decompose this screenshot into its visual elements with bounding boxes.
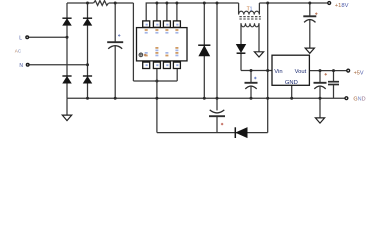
terminal N [26, 64, 29, 67]
capacitor C6 (+5V electrolytic) [314, 83, 327, 89]
diode D6 secondary rectifier [236, 44, 245, 53]
IC U1 pin name labels bottom row [145, 47, 179, 56]
diode D1 bridge top-left [62, 18, 71, 25]
terminal +18V [328, 2, 331, 5]
transformer T1 core dashes [239, 16, 260, 18]
capacitor C5 (+18V filter) [303, 16, 316, 22]
wire IC top bus [146, 3, 238, 21]
svg-text:T1: T1 [247, 7, 253, 13]
IC U1 pin numbers top [146, 24, 179, 26]
svg-text:Vin: Vin [274, 69, 282, 75]
svg-text:L: L [19, 36, 22, 42]
wire cap C2 upper lead [216, 98, 218, 110]
ground arrow +5V cap [315, 118, 324, 123]
capacitor C3 (Vin filter) [245, 83, 258, 89]
transformer T1 secondary coil [241, 23, 259, 27]
ground arrow +18V cap [305, 48, 314, 53]
capacitor C5 plus [315, 13, 317, 15]
regulator U2 box [272, 55, 309, 85]
wire cap C5 lower lead [309, 20, 311, 48]
capacitor C1 (input filter) [107, 42, 123, 49]
wire bottom loop [157, 132, 268, 134]
wire IC pin3 top [166, 3, 168, 21]
wire right tall vertical [267, 3, 269, 133]
diode D5 on left branch [198, 45, 210, 56]
IC U1 pin box 6 bottom [153, 62, 160, 68]
capacitor C1 plus [118, 34, 120, 36]
wire under-IC horizontal [133, 80, 177, 82]
wire diode D5 branch [203, 3, 205, 98]
wire top rail left segment [67, 2, 94, 4]
diode D7 bottom loop [235, 127, 247, 138]
wire IC pin2 top [156, 3, 158, 21]
wire cap C6 bottom lead [319, 87, 321, 99]
wire +18V cap branch [309, 3, 311, 16]
svg-text:GND: GND [353, 96, 365, 102]
wire cap C7 bottom lead [333, 84, 335, 98]
wire from rail down left of IC [132, 3, 134, 81]
ground arrow bridge [62, 115, 71, 121]
IC U1 marker speck [144, 54, 146, 56]
svg-text:Vout: Vout [295, 69, 307, 75]
IC U1 pin box 5 bottom [143, 62, 150, 68]
wire IC pin2 bottom long [156, 69, 158, 133]
wire regulator GND pin [291, 85, 293, 98]
transformer T1 secondary lead left [240, 23, 242, 44]
wire snubber branch [216, 3, 218, 98]
IC U1 pin box 8 bottom [173, 62, 180, 68]
wire IC pin4 top [176, 3, 178, 21]
svg-text:GND: GND [285, 80, 298, 86]
capacitor C6 plus [325, 73, 327, 75]
wire bridge right column [87, 3, 89, 98]
junction dots Vin node [250, 69, 270, 72]
wire bridge left column [66, 3, 68, 98]
wire Vin node horizontal [241, 70, 272, 72]
junction dots +5V rail [319, 69, 336, 72]
capacitor C2 plus [221, 123, 223, 125]
IC U1 pin name labels top row [145, 29, 179, 33]
wire L input [29, 36, 68, 38]
wire cap C6 ground stub [319, 98, 321, 118]
node L junction [66, 36, 69, 39]
IC U1 pin box 3 top [163, 21, 170, 27]
IC U1 pin box 4 top [173, 21, 180, 27]
transformer T1 secondary lead right [258, 23, 260, 52]
wire ground rail [67, 97, 345, 99]
wire cap C7 top lead [333, 71, 335, 82]
terminal L [26, 36, 29, 39]
diode D4 bridge bottom-right [83, 76, 92, 83]
resistor R1 [94, 1, 109, 6]
svg-text:AC: AC [15, 48, 22, 53]
wire diode D6 to Vin node [240, 53, 242, 70]
svg-text:+5V: +5V [354, 71, 364, 77]
wire top rail to +18V [259, 2, 327, 4]
svg-text:+18V: +18V [335, 3, 349, 9]
terminal +5V [347, 69, 350, 72]
wire Vout to +5V [309, 70, 346, 72]
transformer T1 primary lead right [258, 3, 260, 14]
wire cap C3 bottom lead [250, 87, 252, 99]
wire cap C1 bottom lead [114, 46, 116, 98]
transformer T1 primary lead left [238, 3, 240, 14]
IC U1 pin numbers bottom [146, 64, 179, 66]
svg-text:N: N [19, 63, 23, 69]
ground arrow secondary [254, 52, 263, 57]
wire cap C2 lower lead [216, 116, 218, 132]
IC U1 pin1 marker circle [139, 53, 143, 57]
IC U1 pin box 7 bottom [163, 62, 170, 68]
junction dots ground rail [86, 97, 322, 100]
wire top rail after resistor [109, 2, 134, 4]
wire cap C3 top lead [250, 71, 252, 83]
junction dots top rail [86, 2, 311, 5]
capacitor C3 plus [254, 77, 256, 79]
wire N input [29, 64, 88, 66]
IC U1 pin box 1 top [143, 21, 150, 27]
wire cap C6 top lead [319, 71, 321, 83]
terminal GND [345, 97, 348, 100]
capacitor C2 (snubber, inverted) [209, 110, 225, 116]
wire up to IC pin 4 bottom [176, 69, 178, 82]
node N junction [86, 63, 89, 66]
capacitor C7 (+5V ceramic) [328, 82, 339, 85]
transformer T1 primary coil [239, 11, 260, 14]
diode D3 bridge bottom-left [62, 76, 71, 83]
wire cap C1 top lead [114, 3, 116, 42]
wire ground stub bridge [66, 98, 68, 115]
IC U1 pin box 2 top [153, 21, 160, 27]
op IC U1 body [137, 28, 188, 61]
diode D2 bridge top-right [83, 18, 92, 25]
node loop-pin2 junction [155, 80, 158, 83]
